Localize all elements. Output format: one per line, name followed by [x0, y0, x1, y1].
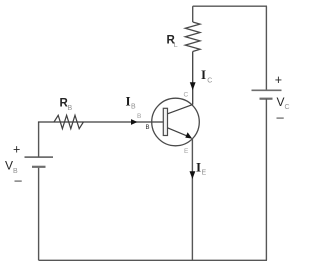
wire: emitter vertical — [191, 139, 193, 261]
svg-text:I: I — [196, 160, 201, 175]
svg-text:I: I — [126, 94, 131, 109]
arrow I_E (emitter current) — [190, 171, 196, 179]
wire: top horizontal — [193, 5, 267, 7]
svg-text:B: B — [137, 113, 141, 120]
svg-text:B: B — [131, 104, 136, 111]
wire: right vertical upper — [265, 6, 267, 90]
svg-text:+: + — [275, 73, 282, 87]
transistor Q1 circle — [152, 98, 200, 146]
emitter lead line — [168, 128, 189, 137]
svg-text:–: – — [277, 110, 285, 125]
svg-text:L: L — [174, 42, 178, 49]
arrow I_C (collector current) — [190, 82, 196, 90]
resistor R_L — [185, 22, 200, 52]
svg-text:E: E — [184, 148, 189, 155]
battery V_C — [252, 90, 282, 98]
svg-text:–: – — [15, 173, 23, 188]
wire: collector vertical below resistor — [192, 52, 194, 105]
wire: left vertical lower — [38, 167, 40, 260]
svg-text:I: I — [201, 67, 206, 82]
transistor base bar — [163, 108, 167, 135]
svg-text:B: B — [68, 105, 73, 112]
battery V_B — [25, 157, 54, 167]
resistor R_B — [54, 115, 83, 128]
svg-text:B: B — [146, 125, 150, 131]
emitter arrowhead — [185, 132, 192, 138]
svg-text:C: C — [184, 92, 189, 99]
wire: left vertical upper — [38, 122, 40, 158]
svg-text:+: + — [13, 143, 20, 157]
wire: bottom horizontal — [39, 259, 267, 261]
arrow I_B (base current) — [131, 119, 138, 125]
wire: base horizontal — [38, 121, 164, 123]
collector lead line — [168, 105, 193, 114]
wire: collector vertical above resistor — [192, 6, 194, 22]
wire: right vertical lower — [265, 99, 267, 261]
svg-text:E: E — [202, 170, 207, 177]
svg-text:C: C — [207, 78, 212, 85]
